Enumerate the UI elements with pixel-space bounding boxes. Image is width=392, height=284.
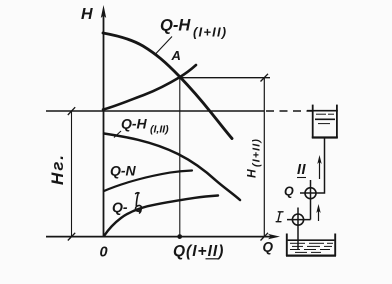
svg-text:Q-H: Q-H <box>160 17 191 35</box>
svg-text:(I+II): (I+II) <box>251 138 263 167</box>
svg-text:Hг.: Hг. <box>48 153 67 185</box>
svg-text:Q-H: Q-H <box>121 116 148 132</box>
svg-text:II: II <box>297 162 307 178</box>
svg-text:Q(I+II): Q(I+II) <box>173 243 224 260</box>
svg-text:Q-: Q- <box>112 199 128 215</box>
svg-text:Q: Q <box>263 240 274 255</box>
svg-text:Q: Q <box>284 185 294 199</box>
svg-text:0: 0 <box>100 245 108 261</box>
svg-text:(I,II): (I,II) <box>150 124 169 136</box>
svg-text:Q-N: Q-N <box>110 163 137 179</box>
svg-text:(I+II): (I+II) <box>193 25 227 40</box>
svg-text:H: H <box>245 169 259 178</box>
svg-text:H: H <box>81 6 93 23</box>
svg-text:A: A <box>171 48 181 63</box>
